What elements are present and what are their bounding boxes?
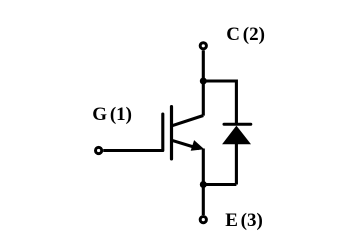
wire diode branch lower vertical — [235, 144, 238, 185]
terminal circle C (2) — [200, 43, 206, 49]
transistor Q1 emitter diagonal — [172, 140, 199, 148]
transistor Q1 collector diagonal — [172, 116, 204, 126]
wire bottom horizontal from diode branch — [203, 183, 236, 186]
wire diode branch upper vertical — [235, 80, 238, 125]
label C (2) — [226, 25, 265, 44]
transistor Q1 gate bar — [161, 114, 164, 151]
wire gate horizontal — [103, 149, 163, 152]
diode D1 anode triangle — [222, 126, 251, 145]
label G (1) — [92, 105, 132, 124]
terminal circle G (1) — [96, 147, 102, 153]
wire emitter vertical — [202, 149, 205, 216]
transistor Q1 body bar — [170, 107, 173, 159]
label E (3) — [225, 211, 263, 230]
node junction dot bottom — [200, 181, 207, 188]
terminal circle E (3) — [200, 217, 206, 223]
diode D1 cathode bar — [224, 123, 251, 126]
wire collector vertical — [202, 50, 205, 115]
transistor Q1 emitter arrowhead — [191, 140, 205, 151]
node junction dot top — [200, 78, 207, 85]
wire top horizontal to diode branch — [203, 79, 236, 82]
